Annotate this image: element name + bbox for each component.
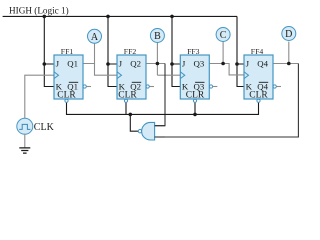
wire Q4 line	[273, 63, 298, 65]
svg-text:FF1: FF1	[61, 47, 74, 56]
wire Q3 to CLK4	[209, 64, 244, 75]
junction CLR dot FF3	[193, 113, 197, 117]
svg-text:Q1: Q1	[67, 59, 78, 69]
svg-text:FF2: FF2	[124, 47, 137, 56]
svg-text:HIGH (Logic 1): HIGH (Logic 1)	[9, 6, 69, 16]
wire stem node B and CLK3	[157, 42, 180, 76]
wire Q1 to CLK2	[83, 64, 117, 76]
node B	[150, 29, 164, 43]
svg-text:CLR: CLR	[118, 90, 137, 100]
junction J dot FF1	[43, 62, 47, 66]
wire J/K drop FF4	[237, 16, 244, 86]
flip-flop FF4	[244, 47, 281, 102]
junction CLR dot NAND	[129, 113, 133, 117]
NAND gate G1	[130, 114, 165, 140]
ground	[19, 134, 30, 153]
svg-text:J: J	[119, 59, 123, 69]
wire J/K drop FF2	[108, 16, 117, 86]
wire J/K drop FF3	[172, 16, 180, 86]
wire NAND top input riser	[155, 64, 165, 126]
svg-text:CLK: CLK	[34, 122, 55, 133]
junction rail dot 2	[106, 15, 110, 19]
svg-text:FF4: FF4	[251, 47, 264, 56]
junction dot C	[221, 62, 225, 66]
node A	[88, 29, 102, 43]
junction rail dot 3	[170, 15, 174, 19]
svg-text:J: J	[246, 59, 250, 69]
junction J dot FF3	[170, 62, 174, 66]
junction J dot FF4	[235, 62, 239, 66]
svg-text:Q2: Q2	[130, 59, 141, 69]
wire Q2 line	[146, 63, 165, 65]
wire stem node A	[94, 42, 96, 64]
svg-text:A: A	[91, 32, 99, 43]
flip-flop FF2	[117, 47, 154, 102]
wire J/K drop FF1	[44, 16, 54, 86]
junction dot B	[156, 62, 160, 66]
wire stem node C	[222, 42, 224, 64]
svg-text:C: C	[220, 30, 227, 41]
wire stem node D	[288, 42, 290, 64]
svg-text:D: D	[285, 29, 292, 40]
wire CLK stem	[25, 75, 54, 119]
flip-flop FF1	[54, 47, 91, 102]
flip-flop FF3	[180, 47, 217, 102]
junction rail dot 1	[43, 15, 47, 19]
svg-text:B: B	[154, 31, 161, 42]
clock source CLK	[17, 118, 55, 134]
junction J dot FF2	[106, 62, 110, 66]
svg-text:J: J	[182, 59, 186, 69]
svg-text:FF3: FF3	[187, 47, 200, 56]
svg-text:J: J	[56, 59, 60, 69]
svg-text:Q4: Q4	[257, 59, 268, 69]
node C	[216, 28, 230, 42]
node D	[282, 27, 296, 41]
wire HIGH rail	[3, 15, 237, 17]
wire CLR bus	[67, 102, 259, 114]
junction dot D	[287, 62, 291, 66]
svg-text:Q3: Q3	[194, 59, 205, 69]
wire NAND bottom input from Q4	[155, 64, 299, 138]
